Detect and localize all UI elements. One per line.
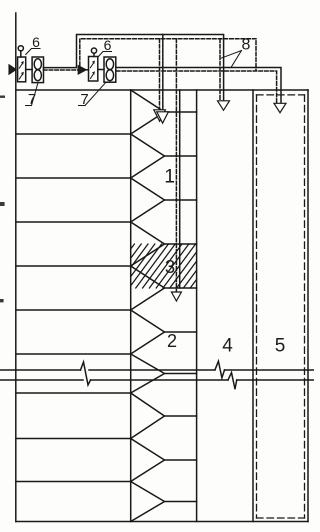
- svg-text:8: 8: [242, 37, 251, 54]
- svg-text:6: 6: [32, 34, 40, 50]
- svg-text:2: 2: [167, 331, 177, 351]
- svg-text:4: 4: [222, 336, 233, 357]
- svg-text:7: 7: [28, 91, 36, 108]
- svg-text:6: 6: [104, 37, 112, 53]
- svg-text:7: 7: [80, 91, 88, 108]
- svg-text:1: 1: [164, 166, 175, 188]
- svg-text:3: 3: [165, 256, 175, 277]
- svg-text:5: 5: [275, 336, 286, 357]
